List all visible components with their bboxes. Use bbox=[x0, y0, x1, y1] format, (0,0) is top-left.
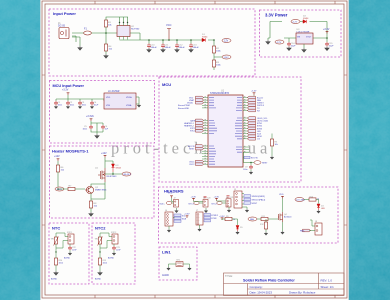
LED D4 bbox=[317, 204, 325, 210]
net flag BOOT0 bbox=[188, 145, 204, 148]
ground R14 AGND bbox=[51, 271, 58, 281]
wire U2 top bus bbox=[118, 17, 140, 40]
capacitor C20 bbox=[204, 197, 211, 200]
connector J1 DC jack bbox=[58, 22, 69, 39]
ground J2 bbox=[175, 210, 178, 213]
capacitor C1 bbox=[54, 101, 63, 106]
port +12V left bbox=[275, 40, 284, 44]
LED D5 bbox=[236, 226, 243, 232]
wire R8 to ground bbox=[90, 208, 92, 212]
junction gate bbox=[57, 188, 59, 190]
svg-text:+3.3VA: +3.3VA bbox=[86, 115, 94, 118]
svg-text:3.3V Power: 3.3V Power bbox=[265, 13, 288, 18]
power flag +3.3V row2 bbox=[184, 214, 190, 219]
section box 3.3V Power bbox=[260, 10, 342, 57]
IC U1 right pin names bbox=[235, 98, 242, 153]
wire filter out bbox=[136, 97, 139, 104]
power flag VDD fan bbox=[279, 194, 284, 199]
svg-text:10uF: 10uF bbox=[94, 104, 99, 106]
ground net tie right bbox=[188, 267, 191, 270]
capacitor C3 bbox=[78, 101, 87, 106]
svg-text:HEATER-2: HEATER-2 bbox=[184, 125, 195, 128]
svg-text:+12V: +12V bbox=[101, 152, 107, 155]
wire regulator left bbox=[268, 22, 296, 43]
section box MCU bbox=[159, 77, 301, 182]
svg-text:100n: 100n bbox=[243, 169, 247, 171]
ground J5 bbox=[245, 209, 248, 212]
svg-text:OLED_SDA: OLED_SDA bbox=[257, 120, 268, 123]
power flag VCC bbox=[166, 23, 172, 40]
connector J6 display header bbox=[165, 210, 173, 226]
capacitor C21 bbox=[227, 196, 234, 199]
svg-text:BTN3: BTN3 bbox=[211, 218, 217, 220]
wire to diode D1 bbox=[196, 39, 214, 41]
svg-text:NTC2: NTC2 bbox=[95, 226, 106, 231]
wire R1 top rail bbox=[106, 17, 118, 54]
ground D5 bbox=[236, 231, 239, 234]
frame tick marks bbox=[42, 1, 347, 298]
svg-text:10uF: 10uF bbox=[329, 46, 335, 48]
svg-text:+12V: +12V bbox=[276, 42, 282, 44]
ground heater bbox=[89, 212, 93, 216]
svg-text:+12V: +12V bbox=[292, 22, 298, 24]
svg-text:VDD: VDD bbox=[168, 193, 173, 195]
power flag +3.3V pullup bbox=[219, 216, 225, 220]
svg-text:Solder Reflow Plate Controller: Solder Reflow Plate Controller bbox=[243, 278, 295, 282]
ground C23 AGND bbox=[108, 252, 116, 260]
ground Q4 bbox=[281, 231, 284, 234]
svg-text:REV: 1.0: REV: 1.0 bbox=[321, 278, 333, 282]
wire analog cap rail bbox=[91, 121, 103, 132]
svg-text:BuzzerPWM: BuzzerPWM bbox=[178, 104, 190, 107]
diode D1 bbox=[202, 34, 208, 42]
svg-text:LC-FILTER: LC-FILTER bbox=[108, 91, 120, 93]
svg-text:J2: J2 bbox=[174, 198, 176, 200]
port NTC1H bbox=[189, 201, 200, 205]
svg-text:MCU: MCU bbox=[162, 82, 171, 87]
power flag +12V center bbox=[101, 152, 107, 158]
svg-text:BTN1/2: BTN1/2 bbox=[211, 215, 219, 217]
wire net tie left bbox=[169, 264, 177, 267]
labels J7 bbox=[204, 214, 219, 222]
wire J4 bbox=[217, 201, 230, 210]
capacitor C12 bbox=[175, 44, 185, 50]
ground R15 AGND bbox=[95, 271, 102, 281]
section box LIN1 bbox=[159, 247, 197, 280]
svg-text:TITLE:: TITLE: bbox=[225, 274, 233, 278]
section box NTC2 bbox=[92, 223, 135, 284]
connector J4 bbox=[226, 197, 231, 207]
svg-text:SS34: SS34 bbox=[202, 36, 208, 38]
svg-text:NRST: NRST bbox=[262, 163, 268, 165]
resistor R1 bbox=[104, 20, 112, 27]
power flag +3.3V row1a bbox=[191, 197, 197, 201]
power flag +12V left bbox=[54, 155, 60, 161]
wire J5 stubs bbox=[242, 194, 247, 210]
svg-text:OSC2: OSC2 bbox=[189, 164, 195, 166]
fuse F1 bbox=[84, 28, 92, 36]
ground R4 bbox=[104, 54, 108, 58]
power flag +3.3V bbox=[323, 28, 330, 34]
ground D4 bbox=[317, 210, 320, 213]
wire net tie right bbox=[183, 264, 190, 267]
power flag +3.3V row1b bbox=[214, 197, 220, 201]
net flag BTN2 bbox=[247, 125, 263, 128]
connector J5 SWD header bbox=[234, 189, 242, 208]
ground C22 AGND bbox=[64, 252, 72, 260]
svg-text:MMBT3904: MMBT3904 bbox=[95, 189, 107, 191]
port GATE bbox=[55, 187, 64, 191]
svg-text:VOUT: VOUT bbox=[306, 37, 312, 39]
svg-text:+3.3V: +3.3V bbox=[62, 89, 69, 92]
wire FAN gate bbox=[257, 199, 283, 233]
capacitor C11 bbox=[161, 44, 171, 50]
svg-text:GATE: GATE bbox=[190, 119, 196, 122]
junction out bbox=[326, 37, 328, 39]
wire drain rail bbox=[105, 158, 113, 200]
svg-text:NCP360: NCP360 bbox=[131, 29, 140, 31]
power flag +3.3V mcu right bbox=[251, 91, 257, 98]
svg-text:10uF: 10uF bbox=[291, 46, 297, 48]
wire R10 to LED D4 bbox=[304, 200, 319, 204]
regulator U3 bbox=[296, 29, 313, 44]
wire J6 area bbox=[169, 218, 175, 230]
wire J2 bbox=[172, 198, 177, 210]
svg-text:100k: 100k bbox=[103, 262, 107, 264]
net flag VDD bbox=[189, 99, 204, 102]
ground R5 bbox=[270, 156, 273, 159]
white schematic page bbox=[40, 0, 349, 300]
ground analog bbox=[95, 134, 99, 138]
resistor R7 bbox=[68, 186, 75, 191]
svg-text:BuzzerGND: BuzzerGND bbox=[178, 107, 190, 110]
junction at R1 bbox=[105, 32, 107, 34]
svg-text:BOOT0: BOOT0 bbox=[251, 158, 259, 160]
svg-text:680uF: 680uF bbox=[165, 47, 172, 49]
net flag FAN right bbox=[247, 96, 263, 99]
svg-text:100k: 100k bbox=[59, 262, 63, 264]
net flag RX right bbox=[247, 107, 260, 110]
svg-text:NRST: NRST bbox=[252, 203, 258, 205]
svg-text:Input Power: Input Power bbox=[53, 11, 76, 16]
svg-text:NT1: NT1 bbox=[177, 260, 181, 262]
wire C22 bbox=[69, 244, 71, 252]
svg-text:NTC1: NTC1 bbox=[67, 232, 73, 234]
power flag +3.3V bbox=[62, 89, 69, 96]
capacitor C14 bbox=[287, 42, 296, 48]
resistor R10 bbox=[309, 196, 319, 201]
resistor R15 bbox=[98, 258, 107, 265]
net flag LED bbox=[247, 130, 261, 133]
frame inner border bbox=[45, 4, 344, 295]
connector J3 bbox=[203, 198, 208, 207]
junction drain bbox=[112, 173, 114, 175]
svg-text:AGND: AGND bbox=[95, 278, 102, 281]
port +12V top bbox=[291, 20, 300, 24]
section box NTC bbox=[49, 223, 89, 284]
port 12VSENSE bbox=[295, 198, 305, 202]
svg-text:VDDA: VDDA bbox=[187, 102, 193, 105]
net flag TX right bbox=[247, 104, 264, 107]
svg-text:FAN: FAN bbox=[250, 218, 255, 221]
ground under C10 bbox=[147, 48, 151, 52]
net flag OLED_SCL bbox=[247, 117, 268, 120]
labels J5 SWD bbox=[244, 195, 266, 205]
junction NTC2 tap bbox=[99, 251, 100, 252]
wire TH1 to J9 bbox=[56, 233, 68, 252]
labels J6 bbox=[174, 214, 187, 222]
svg-text:FAN-: FAN- bbox=[300, 229, 305, 232]
capacitor C6 bbox=[101, 125, 109, 130]
svg-text:C20: C20 bbox=[207, 198, 210, 200]
capacitor C9 bbox=[243, 165, 253, 171]
ground R12 bbox=[264, 232, 267, 235]
capacitor C5 bbox=[83, 125, 94, 130]
wire R14 bbox=[55, 252, 57, 271]
net flag SWCLK right bbox=[247, 101, 264, 104]
svg-text:680uF: 680uF bbox=[193, 47, 200, 49]
net flag OLED_SDA bbox=[247, 119, 268, 122]
svg-text:AGND: AGND bbox=[162, 274, 169, 277]
capacitor C2 bbox=[66, 101, 75, 106]
IC U1 pin numbers bbox=[205, 97, 246, 164]
section box Input Power bbox=[49, 9, 255, 76]
port 12V bbox=[222, 39, 231, 43]
svg-text:12V: 12V bbox=[224, 40, 229, 43]
thermistor TH2 bbox=[95, 237, 103, 246]
IC U2 protection bbox=[117, 22, 140, 40]
connector J8 fan bbox=[315, 221, 322, 235]
svg-text:NTC2: NTC2 bbox=[111, 232, 117, 234]
svg-text:+3.3V: +3.3V bbox=[184, 214, 190, 216]
ground net tie left bbox=[167, 267, 170, 270]
resistor R6 bbox=[56, 165, 65, 172]
svg-text:10nF: 10nF bbox=[72, 249, 77, 251]
IC U1 left pin names bbox=[209, 98, 217, 165]
net flag OSC1 bbox=[189, 160, 204, 163]
resistor R3 bbox=[212, 60, 221, 67]
ground C2 bbox=[66, 105, 69, 108]
ground under C13 bbox=[189, 48, 193, 52]
svg-text:VBAT: VBAT bbox=[189, 99, 195, 102]
mosfet Q4 bbox=[278, 212, 292, 222]
net flag fan conn bbox=[300, 229, 311, 232]
svg-text:FAN: FAN bbox=[257, 99, 261, 102]
svg-text:Company:: Company: bbox=[250, 285, 263, 289]
port HEATER-1 bbox=[122, 172, 132, 176]
ground J1 bbox=[78, 46, 82, 50]
svg-text:LED: LED bbox=[321, 208, 325, 210]
ground left bbox=[266, 40, 270, 44]
ground under C12 bbox=[175, 48, 179, 52]
net flag SCK bbox=[247, 132, 261, 135]
net flag CS bbox=[247, 138, 260, 141]
net flag NTC1 bbox=[190, 127, 204, 130]
capacitor C22 bbox=[68, 246, 77, 251]
connector J2 buzzer bbox=[174, 198, 179, 207]
svg-text:+12V: +12V bbox=[54, 155, 60, 158]
svg-text:+3.3V: +3.3V bbox=[251, 91, 257, 93]
wire C23 bbox=[113, 244, 115, 252]
ground C9 bbox=[249, 171, 252, 174]
svg-text:MCU Input Power: MCU Input Power bbox=[53, 84, 85, 88]
IC U1 left pin stubs bbox=[202, 98, 208, 165]
wire collector emitter bbox=[91, 184, 105, 201]
net flag HEATER2 bbox=[184, 124, 204, 127]
capacitor C23 bbox=[112, 246, 121, 251]
net flag HEATER1 bbox=[184, 122, 204, 125]
ground regulator tab bbox=[302, 44, 306, 52]
net flag VBAT bbox=[189, 96, 204, 99]
svg-text:VDD: VDD bbox=[106, 97, 111, 99]
svg-text:NTC2: NTC2 bbox=[190, 131, 196, 133]
junction divider bbox=[213, 39, 215, 41]
IC U1 right pin stubs bbox=[243, 98, 249, 153]
svg-text:AGND: AGND bbox=[51, 278, 58, 281]
svg-text:SDA: SDA bbox=[182, 217, 187, 220]
resistor R5 bbox=[270, 139, 278, 146]
junction cap taps bbox=[148, 39, 192, 41]
capacitor C13 bbox=[189, 44, 199, 50]
wire R15 bbox=[99, 252, 101, 271]
wire TH2 to J10 bbox=[100, 233, 112, 252]
diode D3 flyback bbox=[112, 164, 122, 172]
svg-text:AGND: AGND bbox=[64, 257, 71, 260]
ground J7 bbox=[198, 228, 201, 231]
svg-text:Drawn By: Robolace: Drawn By: Robolace bbox=[289, 290, 316, 294]
wire caps to ground bbox=[91, 129, 103, 134]
ferrite bead FB1 bbox=[104, 91, 136, 109]
net flag NTC2 bbox=[190, 130, 204, 133]
svg-text:+3.3V: +3.3V bbox=[323, 28, 330, 31]
svg-text:VDD: VDD bbox=[279, 194, 284, 196]
resistor R2 bbox=[212, 46, 221, 53]
svg-text:Heater MOSFETS-1: Heater MOSFETS-1 bbox=[52, 149, 89, 154]
port NRST bbox=[254, 161, 268, 165]
svg-text:NTC: NTC bbox=[52, 226, 60, 231]
net flag SWDIO right bbox=[247, 99, 261, 102]
svg-text:OB-GP1: OB-GP1 bbox=[123, 174, 132, 176]
svg-text:HEATER-1: HEATER-1 bbox=[184, 122, 195, 125]
junction NTC tap bbox=[55, 251, 56, 252]
ground C14 bbox=[287, 46, 291, 50]
svg-text:IRLR7843: IRLR7843 bbox=[107, 176, 118, 178]
frame outer border bbox=[42, 1, 347, 298]
resistor R8 bbox=[89, 201, 98, 208]
svg-text:VSS: VSS bbox=[106, 105, 111, 107]
power flag +1.1V bbox=[86, 115, 94, 121]
ground J6 bbox=[167, 229, 170, 232]
resistor R9 bbox=[225, 216, 235, 221]
section box MCU Input Power bbox=[50, 81, 155, 144]
svg-text:+3.3V: +3.3V bbox=[219, 216, 225, 218]
wire decoupling rail bbox=[56, 95, 104, 101]
net flag BTN1 bbox=[247, 122, 263, 125]
svg-text:HEADERS: HEADERS bbox=[164, 189, 184, 194]
svg-text:C21: C21 bbox=[230, 197, 233, 199]
section box HEADERS bbox=[159, 187, 339, 243]
connector J10 NTC2 bbox=[111, 232, 118, 244]
resistor R4 bbox=[104, 44, 113, 51]
capacitor C15 bbox=[325, 42, 334, 48]
IC U1 STM32 body bbox=[208, 89, 243, 167]
power flag VDD row1 bbox=[168, 193, 173, 199]
svg-text:AO3400: AO3400 bbox=[284, 215, 292, 218]
thermistor TH1 bbox=[51, 237, 59, 246]
port FAN bbox=[248, 217, 257, 221]
net flag BTN3 bbox=[247, 127, 263, 130]
wire J8 bbox=[309, 220, 315, 231]
wire J7 ground bbox=[199, 225, 201, 228]
ground C1 bbox=[54, 105, 57, 108]
svg-text:VCC: VCC bbox=[166, 23, 172, 27]
junction NRST bbox=[250, 162, 251, 163]
svg-text:SS34: SS34 bbox=[303, 18, 309, 20]
transistor Q2 bbox=[85, 186, 107, 193]
net tie U6 bbox=[176, 260, 183, 267]
svg-text:J4: J4 bbox=[226, 197, 228, 199]
diode D2 bbox=[303, 16, 309, 24]
net flag VDDA bbox=[187, 101, 204, 104]
svg-text:SWDIO(PA13): SWDIO(PA13) bbox=[252, 195, 266, 198]
svg-text:SS34: SS34 bbox=[116, 167, 122, 169]
net flag RX2 right bbox=[247, 109, 260, 112]
wire regulator out bbox=[313, 34, 327, 43]
svg-text:VDIV: VDIV bbox=[224, 57, 230, 59]
net flag NRST bbox=[189, 147, 204, 150]
svg-text:10nF: 10nF bbox=[116, 249, 121, 251]
resistor R12 bbox=[260, 222, 268, 229]
ground filter bbox=[137, 104, 140, 107]
resistor R14 bbox=[54, 258, 63, 265]
svg-text:LIN1: LIN1 bbox=[162, 250, 171, 255]
wire bulk cap rail bbox=[149, 40, 191, 44]
net flag GATE bbox=[190, 119, 204, 122]
svg-text:NRST: NRST bbox=[189, 149, 195, 151]
net flag OSC2 bbox=[189, 163, 204, 166]
svg-text:J3: J3 bbox=[203, 198, 205, 200]
ground under C11 bbox=[161, 48, 165, 52]
mosfet Q1 bbox=[95, 168, 117, 183]
ground J4 bbox=[227, 209, 230, 212]
svg-text:Sheet: 1/1: Sheet: 1/1 bbox=[321, 285, 335, 289]
wire pullup to LED bbox=[222, 219, 238, 225]
wire diode to port bbox=[105, 172, 122, 174]
capacitor C4 bbox=[90, 101, 99, 106]
net flag MISO bbox=[247, 135, 262, 138]
wire diode to regulator bbox=[300, 22, 327, 34]
ground C4 bbox=[90, 105, 93, 108]
ground C15 bbox=[325, 46, 329, 50]
wire gate to transistor bbox=[58, 188, 85, 191]
wire BOOT0 NRST cluster bbox=[244, 134, 273, 172]
connector J9 NTC1 bbox=[67, 232, 74, 244]
connector J7 bbox=[196, 210, 203, 225]
net flag BOOT0 pin bbox=[244, 156, 259, 159]
svg-text:DC-05: DC-05 bbox=[58, 25, 66, 28]
wire divider tap bbox=[214, 40, 222, 70]
wire J3 bbox=[194, 201, 207, 210]
section box Heater MOSFETs bbox=[50, 146, 155, 218]
svg-text:Date: 19-04-2023: Date: 19-04-2023 bbox=[250, 290, 273, 294]
svg-text:VSSA: VSSA bbox=[126, 104, 132, 107]
svg-text:VDDA: VDDA bbox=[126, 96, 132, 99]
svg-text:680uF: 680uF bbox=[151, 47, 158, 49]
port BUZZER+ bbox=[160, 201, 172, 205]
wire jack ground bbox=[72, 36, 76, 42]
junction VCC rail bbox=[168, 39, 170, 41]
svg-text:BUZ+: BUZ+ bbox=[160, 203, 166, 205]
